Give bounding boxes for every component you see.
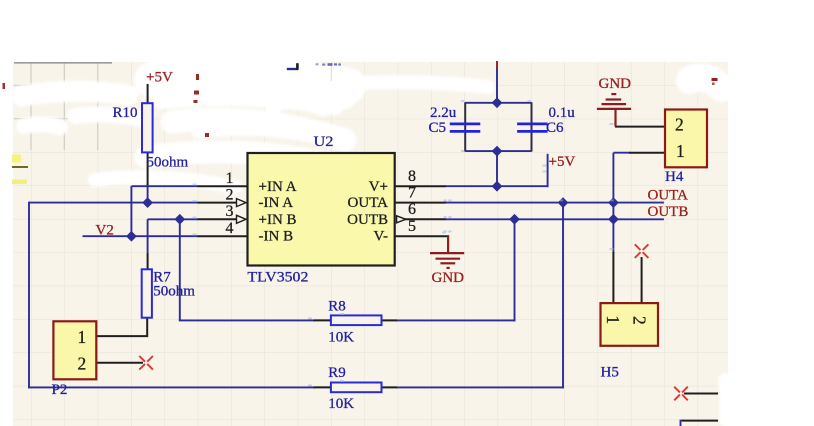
wire OUTB to H5 pin1 vertical xyxy=(612,219,614,253)
wire H4 pin1 vertical xyxy=(612,153,614,220)
svg-text:V-: V- xyxy=(374,229,388,245)
capacitor C6 lead xyxy=(531,102,533,151)
connector P2 body xyxy=(53,321,96,379)
junction OUTA/R9 xyxy=(558,197,569,208)
leftover yellow fragments on left edge xyxy=(12,155,21,163)
junction OUTA/H4 xyxy=(608,197,619,208)
svg-text:GND: GND xyxy=(599,76,632,92)
svg-text:5: 5 xyxy=(408,218,416,235)
svg-text:GND: GND xyxy=(432,270,465,286)
faint grid-snap artifacts xyxy=(193,100,614,387)
wire pin3 corner down to R7 vertical xyxy=(147,219,149,254)
junction cap top xyxy=(492,97,503,108)
svg-text:+IN B: +IN B xyxy=(259,212,297,228)
wire V2 net horizontal xyxy=(83,235,199,237)
wire cap bottom rail xyxy=(465,150,531,152)
wire pin2 net left vertical xyxy=(28,202,30,389)
bottom right pin B xyxy=(682,420,718,422)
junction rail pin8 xyxy=(492,181,503,192)
wire H4 pin1 corner horizontal xyxy=(613,152,630,154)
no-ERC X at H5 pin 2 xyxy=(635,244,649,258)
svg-text:2: 2 xyxy=(675,114,684,134)
H4 pin1 stub xyxy=(629,152,665,154)
svg-text:R9: R9 xyxy=(328,365,346,381)
R8 right stub xyxy=(381,319,397,321)
wire R10 bottom to pin2 junction vertical xyxy=(147,184,149,203)
wire pin3 to R8 vertical xyxy=(179,219,181,320)
R10 top stem xyxy=(147,84,149,104)
svg-text:C6: C6 xyxy=(546,120,564,136)
junction OUTB/H5 xyxy=(608,214,619,225)
leftover red tick left edge xyxy=(3,83,6,89)
pin 5 stub U2 xyxy=(395,235,449,237)
svg-text:2: 2 xyxy=(629,316,649,325)
power wire red tip (cap feed) xyxy=(496,61,498,68)
leftover dark red specks xyxy=(194,74,210,137)
R7 bottom stub to P2 pin1 xyxy=(96,318,147,337)
capacitor C5 plates xyxy=(450,124,481,131)
wire pin2 net horizontal xyxy=(29,202,198,204)
wire OUTA net horizontal xyxy=(445,202,664,204)
faint erased blue text remnant xyxy=(316,63,341,66)
H4 pin2 stub xyxy=(615,126,665,128)
grid line visible through smudge xyxy=(330,63,332,81)
pin 2 triangle marker xyxy=(237,199,247,207)
wire R8 right horizontal xyxy=(396,319,516,321)
wire cap top feed vertical xyxy=(496,66,498,103)
svg-text:R10: R10 xyxy=(113,105,138,121)
no-ERC X bottom right xyxy=(674,387,688,401)
leftover red speck top right xyxy=(712,78,718,81)
resistor R8 body xyxy=(331,315,382,325)
svg-text:+5V: +5V xyxy=(549,154,576,170)
svg-text:2: 2 xyxy=(78,354,87,374)
svg-text:-IN B: -IN B xyxy=(259,229,294,245)
svg-text:R8: R8 xyxy=(328,299,346,315)
R8 left stub xyxy=(314,319,332,321)
ground symbol (top, H4 pin2) xyxy=(597,94,631,127)
svg-text:3: 3 xyxy=(226,203,234,220)
svg-text:1: 1 xyxy=(676,141,685,161)
svg-text:H4: H4 xyxy=(665,169,684,185)
svg-text:TLV3502: TLV3502 xyxy=(247,270,308,286)
pin 6 triangle marker xyxy=(397,216,406,223)
leftover wire corner remnant (top middle) xyxy=(287,68,298,70)
capacitor C6 plates xyxy=(517,124,548,131)
svg-text:H5: H5 xyxy=(601,365,619,381)
svg-text:P2: P2 xyxy=(52,382,68,398)
junction pin1/V2 xyxy=(126,231,137,242)
R10 bottom stub xyxy=(147,150,149,185)
svg-text:1: 1 xyxy=(226,170,234,187)
sheet top edge line xyxy=(14,62,112,64)
R9 left stub xyxy=(314,386,332,388)
H5 pin1 stub xyxy=(612,252,614,304)
sheet background xyxy=(13,62,728,426)
svg-text:50ohm: 50ohm xyxy=(147,154,189,170)
resistor R9 body xyxy=(331,383,382,393)
svg-text:+IN A: +IN A xyxy=(259,179,297,195)
svg-text:10K: 10K xyxy=(328,396,354,412)
op-amp U2 body xyxy=(248,153,395,266)
junction R10/pin2 xyxy=(142,197,153,208)
resistor R7 body xyxy=(142,269,152,317)
wire OUTB to R8 vertical xyxy=(514,219,516,321)
H5 pin2 stub xyxy=(641,257,643,304)
connector H4 body xyxy=(665,110,707,168)
no-ERC X at P2 pin 2 xyxy=(139,356,153,370)
pin 6 stub U2 xyxy=(405,218,446,220)
bottom right pin A xyxy=(684,393,718,395)
junction cap bottom xyxy=(492,146,503,157)
svg-text:2.2u: 2.2u xyxy=(430,105,457,121)
svg-text:50ohm: 50ohm xyxy=(153,284,195,300)
svg-text:2: 2 xyxy=(226,186,234,203)
wire pin1 to V2 vertical xyxy=(130,186,132,236)
wire +5V port stem xyxy=(547,154,549,187)
svg-text:7: 7 xyxy=(408,184,416,201)
wire cap top rail xyxy=(465,102,531,104)
svg-text:U2: U2 xyxy=(314,134,334,150)
svg-text:OUTB: OUTB xyxy=(347,212,388,228)
svg-text:-IN A: -IN A xyxy=(259,195,294,211)
connector H5 body xyxy=(601,303,659,346)
svg-text:1: 1 xyxy=(78,327,87,347)
wire R8 left horizontal xyxy=(179,319,315,321)
junction OUTB/R8 xyxy=(509,214,520,225)
svg-text:V+: V+ xyxy=(369,179,388,195)
svg-text:10K: 10K xyxy=(328,330,354,346)
svg-text:C5: C5 xyxy=(429,120,447,136)
capacitor C5 lead xyxy=(464,102,466,151)
svg-text:4: 4 xyxy=(226,220,234,237)
svg-text:OUTA: OUTA xyxy=(348,195,389,211)
wire bottom right corner xyxy=(681,421,684,426)
wire pin1 horizontal xyxy=(131,185,198,187)
svg-text:0.1u: 0.1u xyxy=(549,105,576,121)
pin 2 stub U2 xyxy=(198,202,237,204)
svg-text:OUTA: OUTA xyxy=(648,187,689,203)
ground symbol (V- pin 5) xyxy=(430,235,464,268)
top-left darker grid patch xyxy=(14,62,115,150)
white eraser smudges xyxy=(22,73,727,420)
pin 8 stub U2 xyxy=(395,185,446,187)
wire OUTB net horizontal xyxy=(445,218,664,220)
wire pin3 horizontal xyxy=(148,218,198,220)
junction pin3/R8 xyxy=(174,214,185,225)
svg-text:8: 8 xyxy=(408,168,416,185)
wire R9 right horizontal xyxy=(396,386,564,388)
R9 right stub xyxy=(381,386,397,388)
resistor R10 body xyxy=(142,103,153,152)
wire bottom R9 net horizontal xyxy=(28,386,315,388)
P2 pin2 stub xyxy=(96,362,143,364)
svg-text:6: 6 xyxy=(408,201,416,218)
svg-text:+5V: +5V xyxy=(146,70,173,86)
pin 3 stub U2 xyxy=(198,218,237,220)
pin 1 stub U2 xyxy=(198,185,248,187)
pin 3 triangle marker xyxy=(237,215,247,223)
svg-text:1: 1 xyxy=(603,315,623,324)
R7 top stub xyxy=(147,254,149,270)
svg-text:OUTB: OUTB xyxy=(648,204,689,220)
wire +5V rail to pin8 xyxy=(445,185,548,187)
wire OUTA to R9 vertical xyxy=(562,203,564,389)
pin 4 stub U2 xyxy=(198,235,248,237)
pin 7 stub U2 xyxy=(395,202,446,204)
svg-text:V2: V2 xyxy=(96,222,114,238)
wire caps to rail vertical xyxy=(496,151,498,186)
